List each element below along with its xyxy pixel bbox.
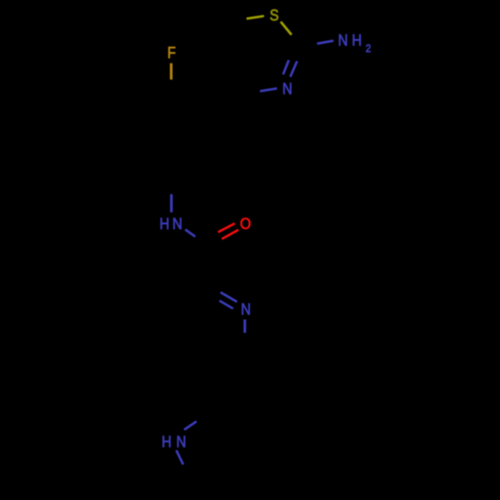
svg-text:N: N	[282, 81, 292, 98]
svg-text:N: N	[241, 302, 251, 319]
svg-text:N: N	[338, 33, 348, 50]
svg-text:H: H	[160, 216, 170, 233]
svg-text:H: H	[162, 434, 172, 451]
svg-text:O: O	[240, 215, 251, 233]
svg-text:H: H	[352, 33, 362, 50]
svg-text:N: N	[172, 216, 182, 233]
svg-text:F: F	[167, 45, 175, 62]
svg-text:S: S	[270, 8, 279, 25]
svg-text:N: N	[176, 434, 186, 451]
svg-text:2: 2	[366, 44, 372, 56]
